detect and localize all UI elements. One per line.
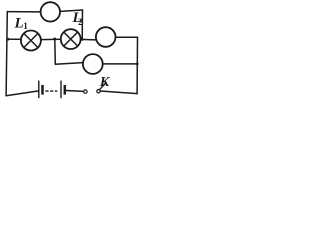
wire ammeter A2 to right vertical	[116, 36, 138, 38]
node B dot	[81, 38, 84, 41]
wire ammeter A3 to right vertical	[103, 63, 137, 65]
svg-text:1: 1	[23, 21, 28, 31]
ammeter A3 right lower	[83, 54, 103, 74]
battery dashed link	[45, 90, 57, 92]
wire top-right drop to node B	[81, 10, 83, 39]
wire switch to bottom right corner	[101, 91, 138, 94]
lamp L1	[21, 31, 41, 51]
ammeter A1 top	[41, 2, 60, 21]
wire left vertical	[6, 12, 7, 96]
wire top right of ammeter	[60, 10, 82, 11]
battery cell 2 short plate	[64, 85, 67, 95]
svg-text:2: 2	[78, 17, 83, 27]
wire node A drop	[54, 39, 57, 64]
wire to ammeter A3	[55, 63, 83, 65]
wire right vertical	[136, 37, 138, 93]
node A dot	[53, 38, 56, 41]
wire lamp L2 to ammeter A2	[81, 38, 97, 41]
battery cell 2 long plate	[60, 81, 62, 99]
wire node left to lamp L1	[8, 38, 21, 40]
lamp L2	[61, 29, 81, 49]
wire top left to ammeter	[7, 11, 40, 13]
node dot left	[7, 38, 10, 41]
wire battery to switch	[66, 90, 84, 93]
switch K blade	[100, 83, 106, 90]
wire lamp L1 to lamp L2	[41, 38, 61, 40]
svg-text:K: K	[99, 75, 111, 90]
node right dot	[136, 63, 139, 66]
ammeter A2 right upper	[96, 27, 116, 47]
wire bottom left to battery	[6, 91, 38, 96]
switch K contact left	[84, 90, 87, 93]
switch K contact right	[97, 90, 100, 93]
battery cell 1 short plate	[41, 85, 44, 95]
battery cell 1 long plate	[38, 81, 40, 99]
svg-text:L: L	[14, 16, 24, 32]
